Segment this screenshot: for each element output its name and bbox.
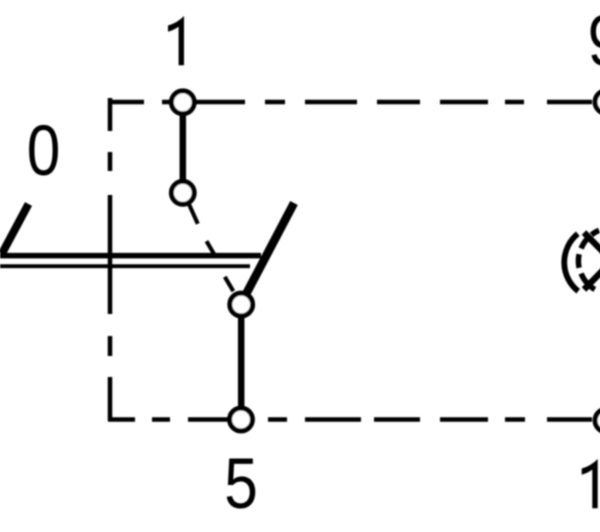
upper contact arm (dashed, open) — [189, 204, 214, 254]
rocker top line — [0, 253, 261, 259]
lamp cross stroke upper — [584, 233, 600, 262]
node terminal 5 — [230, 408, 253, 431]
label 10 — [582, 459, 598, 508]
rocker left diagonal — [2, 204, 29, 254]
rocker right diagonal (pressed, to lower contact) — [244, 203, 294, 298]
rocker bottom line — [0, 264, 250, 268]
node upper contact — [171, 181, 194, 204]
wire: vertical connector lower contact to terminal 5 — [238, 315, 245, 408]
label 1 — [168, 16, 184, 65]
node lower contact — [230, 293, 253, 316]
wire: vertical connector terminal 1 to upper contact — [180, 113, 187, 182]
lamp dashed circle — [578, 230, 599, 289]
node terminal 10 (clipped at right edge) — [595, 409, 600, 432]
lamp parenthesis arc — [564, 234, 578, 291]
svg-text:5: 5 — [224, 443, 258, 523]
housing dashed box left edge — [108, 98, 113, 421]
lower contact arm stub — [225, 277, 234, 291]
node terminal 1 — [171, 91, 194, 114]
node terminal 9 (clipped at right edge) — [595, 91, 600, 114]
svg-text:9: 9 — [588, 0, 600, 80]
svg-text:0: 0 — [27, 110, 61, 190]
lamp cross stroke lower — [584, 261, 600, 290]
bottom dash-dot line (terminal 5 to terminal 10) — [108, 417, 592, 421]
top dash-dot line (terminal 1 to terminal 9) — [108, 100, 592, 104]
